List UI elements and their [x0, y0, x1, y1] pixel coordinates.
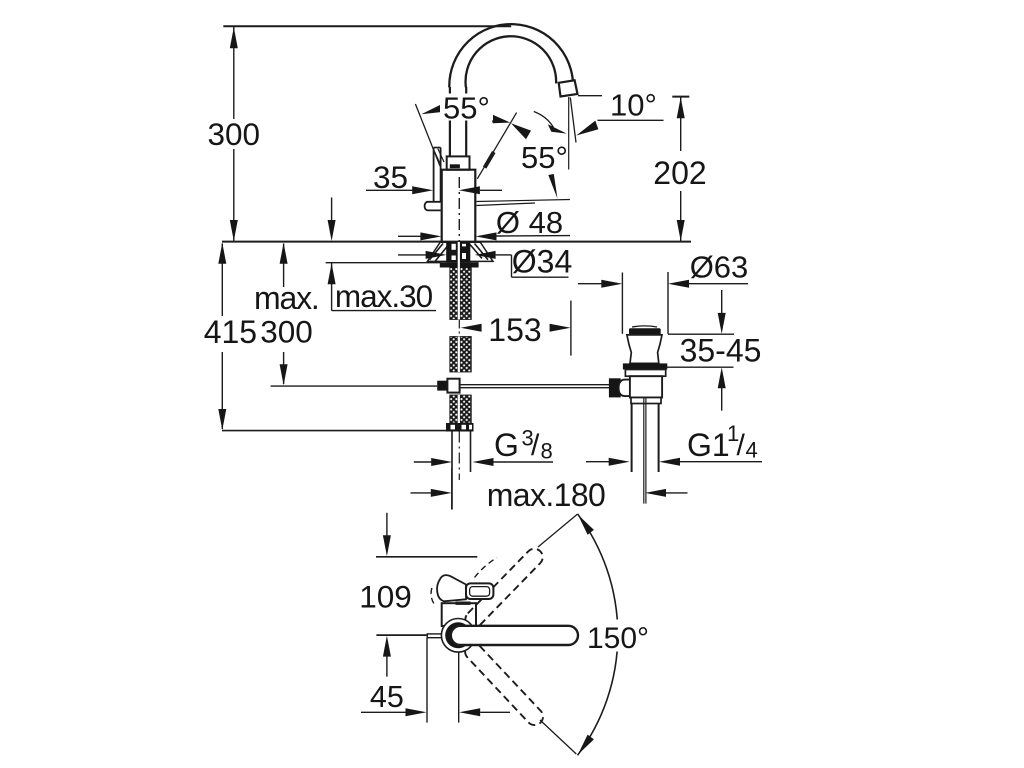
55-degree left ray — [415, 104, 440, 166]
pop-up rod (double line to drain) — [460, 384, 609, 386]
dimension max.180 line left — [411, 492, 432, 494]
max.180 arrow right-pointing — [431, 489, 452, 497]
collar — [447, 156, 470, 169]
D34 arrow left-pointing — [475, 251, 496, 259]
hose segment C — [450, 395, 472, 423]
svg-text:Ø63: Ø63 — [690, 249, 749, 284]
45 arrow right-pointing — [406, 708, 427, 716]
max.30 reference line — [326, 262, 441, 264]
top reference line — [223, 25, 511, 27]
lever grip — [466, 583, 493, 599]
dashed spout rotated down — [462, 640, 547, 729]
handle blade — [433, 148, 435, 202]
flange hatch left — [430, 244, 444, 260]
35 arrow right-pointing — [412, 186, 433, 194]
drain cap — [629, 328, 661, 334]
mounting flange trapezoid — [427, 242, 493, 261]
dimension G3/8 line right — [494, 461, 554, 463]
55-degree left arrowhead — [421, 104, 443, 114]
aerator block — [559, 80, 578, 96]
rod crossing joint — [447, 379, 459, 393]
rod clamp at drain — [609, 378, 621, 397]
150-degree arc — [578, 514, 618, 756]
bottom view top line — [376, 556, 477, 558]
handle ghost stroke right — [485, 152, 494, 168]
svg-text:Ø 48: Ø 48 — [496, 205, 563, 240]
drain rod inside pipe — [643, 398, 645, 504]
55-degree arc under spout — [534, 112, 554, 128]
spout inner arc — [466, 36, 557, 87]
spout outer arc — [449, 24, 573, 94]
max.30 arrow up — [328, 263, 336, 284]
svg-text:35-45: 35-45 — [680, 333, 762, 369]
D63 arrow left-pointing — [668, 280, 689, 288]
dimension 300 lower arrow down — [280, 364, 288, 385]
max.180 arrow left-pointing — [645, 489, 666, 497]
D48 arrow left-pointing — [476, 232, 497, 240]
svg-text:G1: G1 — [687, 427, 730, 463]
drain trumpet flange — [627, 335, 662, 364]
spout capsule (top view) — [451, 626, 578, 645]
vertical reference line at spout outlet — [568, 97, 570, 170]
drain bottom flange — [631, 398, 661, 404]
dimension 45 line left — [361, 711, 406, 713]
10-degree arrowhead — [576, 121, 598, 136]
svg-text:109: 109 — [359, 579, 412, 615]
hose segment B — [450, 337, 472, 373]
svg-text:35: 35 — [373, 159, 408, 195]
dimension max.415 line — [221, 244, 223, 317]
drain tailpipe — [631, 404, 633, 473]
10-degree top tick line — [578, 95, 602, 97]
collar cartridge mark — [450, 164, 460, 168]
handle hook — [425, 202, 441, 211]
svg-text:202: 202 — [653, 155, 706, 191]
dimension 300 (top left) line — [233, 27, 235, 119]
dimension 300 arrow up — [230, 27, 238, 48]
dashed spout rotated up — [462, 545, 546, 631]
shank white center slot — [458, 242, 460, 320]
hose end nut — [446, 423, 474, 432]
drain upper band — [625, 370, 665, 377]
lever rotation dashes left — [431, 588, 434, 604]
D48 arrow right-pointing — [420, 232, 441, 240]
top view tab — [427, 634, 443, 638]
white patch behind 55-degree label — [440, 94, 493, 121]
G1-1/4 arrow left-pointing — [659, 458, 680, 466]
svg-text:55°: 55° — [521, 140, 568, 175]
10-degree dimension line — [598, 119, 664, 121]
handle ghost hatch — [434, 151, 441, 166]
153 right reference tick — [570, 301, 572, 356]
drain body — [630, 376, 662, 397]
arc arrowhead top — [578, 515, 594, 535]
pivot dark ring — [445, 622, 471, 648]
svg-text:max.180: max.180 — [487, 477, 606, 513]
35-45 up arrow — [718, 367, 726, 388]
arc leader bottom — [540, 720, 576, 754]
D63 arrow right-pointing — [601, 280, 622, 288]
dimension max.415 arrow down — [218, 409, 226, 430]
svg-text:150°: 150° — [587, 622, 649, 655]
svg-text:G: G — [494, 427, 519, 463]
flange hatch right — [475, 244, 489, 260]
threaded shank core — [446, 242, 470, 262]
55 arc arrowhead — [548, 124, 567, 133]
svg-text:8: 8 — [541, 439, 553, 464]
body top dark mark — [456, 602, 471, 605]
centerline inside body — [458, 177, 460, 242]
dimension D34 line right + leader — [496, 254, 512, 256]
svg-text:Ø34: Ø34 — [512, 244, 572, 280]
outlet leader double line — [477, 200, 571, 202]
lever rotation dashes right — [475, 558, 498, 578]
svg-text:153: 153 — [488, 312, 541, 348]
202 arrow down — [677, 220, 685, 241]
pop-up rod left reference — [271, 385, 438, 387]
109 bottom arrow — [383, 636, 391, 657]
35-45 down arrow — [721, 290, 723, 314]
threaded shank segment A — [450, 268, 472, 320]
max.30 underline — [332, 310, 436, 312]
faucet body — [442, 170, 476, 242]
arc arrowhead bottom — [578, 735, 594, 755]
flange bottom bar — [440, 262, 479, 267]
35-45 upper reference line — [668, 333, 734, 335]
dimension G3/8 line left — [414, 461, 432, 463]
dimension max.415 arrow up — [218, 243, 226, 264]
water flow line (10 deg) — [570, 98, 576, 143]
bottom view center reference line — [376, 634, 427, 636]
svg-text:300: 300 — [208, 116, 261, 152]
dimension D48 line right — [497, 235, 571, 237]
dimension D48 line left — [398, 235, 421, 237]
svg-text:4: 4 — [746, 438, 758, 463]
dimension G1-1/4 line left — [586, 461, 609, 463]
svg-text:55°: 55° — [443, 91, 490, 126]
G3/8 arrow right-pointing — [431, 458, 452, 466]
bottom view: 109 top arrow — [386, 513, 388, 537]
svg-text:/: / — [737, 429, 746, 462]
bottom reference line (hose end) — [222, 430, 446, 432]
svg-text:max.30: max.30 — [335, 278, 433, 314]
drain boss — [619, 380, 633, 397]
drain seal ring — [623, 363, 667, 369]
45 extension line right (centerline) — [458, 652, 460, 722]
svg-text:300: 300 — [260, 314, 313, 350]
dimension G1-1/4 line right — [680, 461, 762, 463]
45 arrow left-pointing — [459, 708, 480, 716]
lever wedge — [437, 575, 466, 601]
drain cap dome — [632, 326, 657, 327]
dimension 153 arrows — [461, 324, 482, 332]
countertop line — [222, 241, 691, 243]
dimension 202 line — [680, 97, 682, 151]
G3/8 arrow left-pointing — [473, 458, 494, 466]
bowtie arrowheads on right ray — [490, 113, 511, 123]
45 extension line left — [426, 638, 428, 723]
faucet neck tube — [449, 87, 451, 156]
D63 extension lines — [621, 273, 623, 334]
G3/8 tailpiece — [451, 432, 453, 510]
dimension 45 line right — [480, 711, 510, 713]
dimension 300 arrow down — [230, 220, 238, 241]
55 leader arrow down — [548, 174, 557, 199]
arc leader top — [538, 514, 577, 547]
dimension 300 (lower) line — [283, 244, 285, 288]
D34 arrow right-pointing — [426, 251, 447, 259]
35-45 lower reference line — [667, 366, 734, 368]
202 T-bar — [672, 96, 689, 98]
dimension 300 lower arrow up — [280, 243, 288, 264]
G1-1/4 arrow right-pointing — [609, 458, 630, 466]
dimension D34 line left — [398, 254, 426, 256]
dimension D63 line left — [578, 283, 602, 285]
dimension 35 line right — [480, 189, 502, 191]
svg-text:10°: 10° — [610, 88, 657, 123]
55-degree right ray — [477, 113, 516, 179]
35 arrow left-pointing — [459, 186, 480, 194]
svg-text:415: 415 — [204, 314, 257, 350]
svg-text:45: 45 — [370, 680, 404, 714]
max.30 upper arrow (down to countertop) — [331, 198, 333, 222]
pivot outer circle — [441, 619, 475, 653]
max.30 dimension stem — [331, 263, 333, 311]
dimension D63 line right — [689, 283, 748, 285]
dimension 35 line left — [366, 189, 413, 191]
rod clamp block at hose — [437, 381, 447, 391]
dimension max.180 line right — [666, 492, 688, 494]
svg-text:/: / — [531, 429, 540, 462]
centerline (faucet axis) — [458, 177, 460, 242]
svg-text:max.: max. — [254, 280, 319, 316]
top view body — [442, 603, 476, 626]
white patch behind 150 label — [582, 620, 653, 652]
max.180 left extension line — [451, 468, 453, 510]
202 arrow up — [677, 97, 685, 118]
